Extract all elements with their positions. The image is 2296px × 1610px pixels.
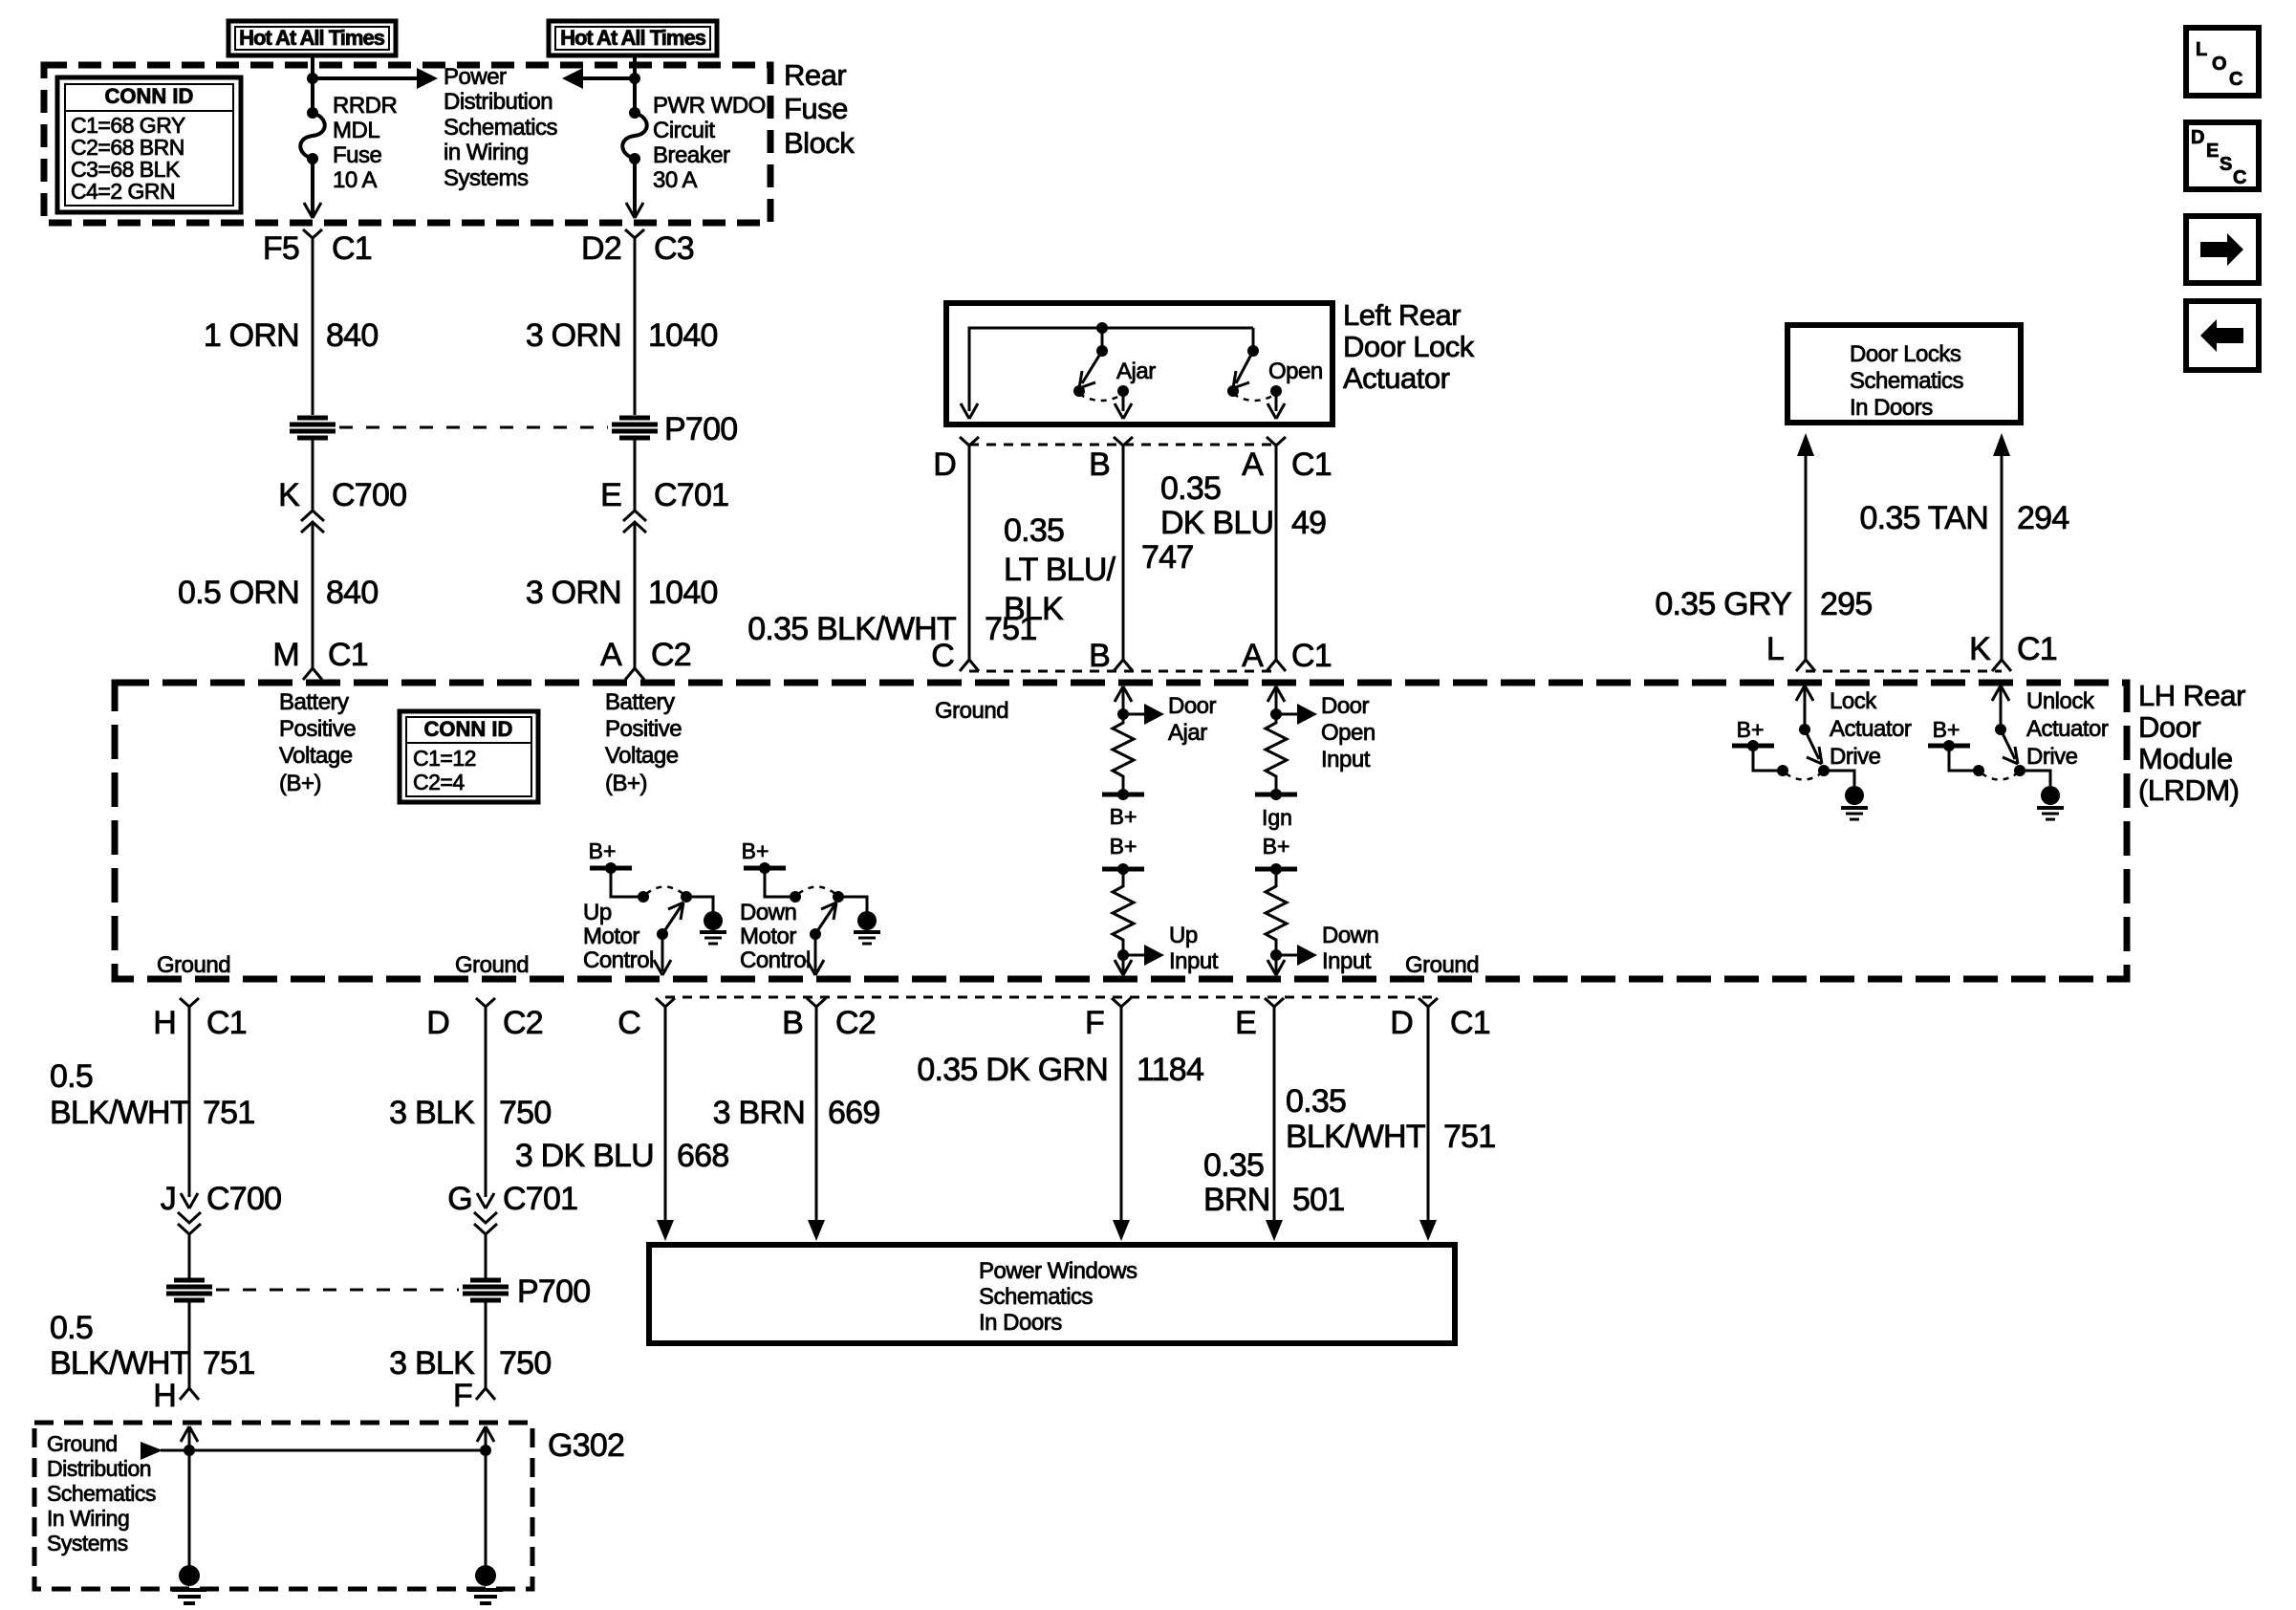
resistor up input: [1113, 869, 1134, 955]
svg-text:3 ORN: 3 ORN: [526, 575, 621, 611]
svg-text:Ground: Ground: [1405, 952, 1479, 978]
nav box LOC: [2186, 28, 2259, 96]
door open branch arrow: [1276, 704, 1317, 725]
lock drive pivot: [1799, 724, 1810, 735]
svg-text:H: H: [153, 1378, 176, 1414]
svg-text:Down: Down: [740, 900, 796, 925]
svg-text:Lock: Lock: [1830, 688, 1877, 714]
svg-text:Motor: Motor: [583, 924, 639, 949]
up input chain: B+ feed: [1102, 834, 1144, 875]
up motor output wire down arrow: [654, 934, 671, 975]
connector pin M C1 (module entry): [272, 637, 368, 680]
svg-text:P700: P700: [517, 1273, 590, 1310]
svg-text:CONN ID: CONN ID: [105, 84, 194, 108]
svg-text:751: 751: [1443, 1119, 1495, 1155]
module pin B: [1089, 638, 1133, 674]
svg-text:BLK/WHT: BLK/WHT: [50, 1095, 189, 1131]
CONN ID table inside module: [400, 711, 538, 802]
node on bus for ajar switch: [1096, 322, 1108, 334]
nav box arrow left: [2186, 301, 2259, 370]
svg-text:0.35 TAN: 0.35 TAN: [1860, 500, 1988, 536]
svg-text:C1: C1: [1291, 446, 1332, 483]
svg-text:294: 294: [2017, 500, 2069, 536]
wire C to power windows 3 DK BLU 668: [657, 1007, 674, 1241]
svg-text:840: 840: [326, 317, 378, 354]
svg-text:Open: Open: [1268, 359, 1323, 384]
node junction top col2: [629, 73, 640, 84]
down motor moving contact: [833, 891, 844, 903]
up motor control feed wire: [611, 868, 640, 897]
svg-text:M: M: [272, 637, 299, 673]
module bottom connector dashed line: [665, 996, 1434, 999]
svg-text:(B+): (B+): [605, 771, 647, 796]
lock drive moving contact: [1818, 765, 1830, 776]
module pin C (ground): [931, 638, 979, 674]
down motor dashed arc: [798, 887, 835, 895]
svg-text:Door Lock: Door Lock: [1343, 330, 1475, 363]
svg-text:D2: D2: [581, 230, 621, 267]
svg-text:C701: C701: [503, 1181, 577, 1217]
svg-text:Open: Open: [1321, 720, 1375, 746]
svg-text:F5: F5: [263, 230, 299, 267]
svg-text:LT BLU/: LT BLU/: [1004, 552, 1116, 588]
svg-text:Ground: Ground: [935, 698, 1008, 724]
wire arrow to power distribution (right): [313, 68, 438, 89]
wire 0.5 ORN 840: [312, 522, 314, 668]
connector pin F (to G302): [453, 1378, 495, 1414]
unlock actuator drive: arrow up at boundary: [1992, 685, 2009, 701]
svg-text:Hot At All Times: Hot At All Times: [239, 26, 385, 50]
svg-text:C2: C2: [835, 1005, 876, 1041]
wire actuator D to module (ground): [968, 446, 971, 660]
wire lock 0.35 GRY 295 up to door locks box: [1797, 433, 1814, 660]
wire below J connector: [188, 1234, 191, 1278]
connector pin H (to G302): [153, 1378, 199, 1414]
svg-text:C: C: [2233, 167, 2246, 188]
svg-text:Input: Input: [1169, 948, 1219, 974]
splice grommet P700 lower col1: [166, 1280, 212, 1300]
resistor door open: [1266, 714, 1287, 794]
Ign rail door open: [1255, 789, 1297, 830]
svg-text:C1=12: C1=12: [413, 746, 476, 771]
module pin F (bottom): [1085, 998, 1131, 1041]
svg-text:B: B: [782, 1005, 803, 1041]
ajar switch contacts and dashed arc: [1073, 385, 1129, 401]
dashed link between lower P700 splices: [216, 1289, 459, 1292]
open switch contacts and dashed arc: [1227, 385, 1282, 401]
svg-text:501: 501: [1292, 1182, 1344, 1218]
svg-text:Rear: Rear: [784, 58, 846, 92]
svg-text:C: C: [2229, 69, 2242, 90]
resistor door ajar: [1113, 714, 1134, 794]
wire D to power windows 0.35 BLK/WHT 751: [1419, 1007, 1437, 1241]
G302 entry arrow col1: [181, 1426, 198, 1442]
svg-text:0.5: 0.5: [50, 1058, 93, 1095]
up motor contact to ground wire: [686, 897, 713, 912]
svg-text:Unlock: Unlock: [2026, 688, 2095, 714]
svg-text:Schematics: Schematics: [444, 115, 558, 141]
node door ajar: [1117, 708, 1129, 720]
svg-text:D: D: [2191, 127, 2204, 148]
lock drive fixed contact: [1777, 765, 1788, 776]
connector pin D2 C3 (fuse block exit): [581, 229, 694, 267]
svg-text:Positive: Positive: [279, 716, 356, 742]
up motor switch arm: [657, 903, 683, 940]
wire col1 below splice: [312, 438, 314, 511]
module pin B and C2 (bottom): [782, 998, 876, 1041]
svg-text:B+: B+: [1933, 717, 1960, 742]
svg-text:Circuit: Circuit: [653, 118, 715, 143]
svg-text:C700: C700: [332, 477, 406, 513]
wire col2 below splice: [634, 438, 637, 511]
down motor contact to ground wire: [838, 897, 867, 912]
svg-text:Schematics: Schematics: [979, 1284, 1094, 1310]
svg-text:DK BLU: DK BLU: [1160, 505, 1273, 541]
actuator pin B: [1089, 437, 1133, 483]
svg-text:C1: C1: [1291, 638, 1332, 674]
wire D ground 3 BLK 750: [485, 1007, 487, 1197]
unlock drive B+ feed: [1928, 717, 1970, 751]
svg-text:PWR WDO: PWR WDO: [653, 93, 766, 119]
module pin H and C1 (bottom): [153, 998, 247, 1041]
connector pin A C2 (module entry): [600, 637, 691, 680]
svg-text:RRDR: RRDR: [333, 93, 397, 119]
circuit breaker PWR WDO 30A: [622, 107, 647, 164]
svg-text:Power Windows: Power Windows: [979, 1258, 1137, 1284]
wire H ground 0.5 BLK/WHT 751: [188, 1007, 191, 1197]
svg-text:Fuse: Fuse: [333, 142, 382, 168]
svg-text:C2: C2: [503, 1005, 543, 1041]
ground (lock drive): [1841, 786, 1868, 819]
svg-text:G302: G302: [548, 1427, 624, 1464]
G302 dashed box: [34, 1423, 532, 1589]
ground (down motor): [854, 911, 880, 944]
svg-text:Ign: Ign: [1262, 805, 1292, 830]
svg-text:(LRDM): (LRDM): [2138, 773, 2240, 807]
svg-text:L: L: [1766, 631, 1784, 667]
svg-text:J: J: [161, 1181, 176, 1217]
door locks schematics box: [1787, 325, 2021, 423]
svg-text:Voltage: Voltage: [279, 743, 353, 769]
module pin D and C1 (bottom right): [1390, 998, 1490, 1041]
wire 3 ORN 1040: [634, 238, 637, 415]
svg-text:A: A: [1242, 638, 1264, 674]
svg-text:F: F: [453, 1378, 472, 1414]
actuator pin D: [933, 437, 979, 483]
down motor output wire down arrow: [807, 934, 824, 975]
wire from hot box 2 down: [633, 55, 637, 113]
svg-text:Positive: Positive: [605, 716, 682, 742]
svg-text:Drive: Drive: [1830, 744, 1881, 770]
ground (unlock drive): [2037, 786, 2064, 819]
splice grommet P700 col2: [612, 418, 658, 438]
wire 3 ORN 1040 lower: [634, 522, 637, 668]
unlock drive fixed contact: [1973, 765, 1984, 776]
power windows schematics box: [649, 1245, 1455, 1343]
svg-text:668: 668: [677, 1138, 728, 1174]
svg-text:In Wiring: In Wiring: [47, 1506, 129, 1531]
svg-text:A: A: [600, 637, 622, 673]
svg-text:669: 669: [828, 1095, 879, 1131]
svg-text:H: H: [153, 1005, 176, 1041]
svg-text:In Doors: In Doors: [1850, 395, 1933, 421]
svg-text:747: 747: [1141, 539, 1193, 576]
unlock drive feed wire: [1949, 746, 1976, 771]
lock actuator drive: arrow up at boundary: [1796, 685, 1813, 701]
svg-text:0.35 DK GRN: 0.35 DK GRN: [917, 1052, 1108, 1088]
wire down to node: [1122, 688, 1125, 714]
ajar switch pivot: [1096, 328, 1108, 357]
down motor fixed contact: [790, 891, 801, 903]
svg-text:B: B: [1089, 638, 1110, 674]
unlock drive contact to ground wire: [2020, 771, 2050, 786]
svg-text:Module: Module: [2138, 742, 2233, 775]
svg-text:Ground: Ground: [455, 952, 529, 978]
lock drive wire: [1804, 687, 1807, 729]
wire 1 ORN 840: [312, 238, 314, 415]
node up input: [1117, 949, 1129, 961]
B+ rail door ajar: [1102, 789, 1144, 829]
svg-text:751: 751: [203, 1095, 254, 1131]
svg-text:B+: B+: [1110, 834, 1137, 859]
down motor control feed wire: [765, 868, 792, 897]
svg-text:750: 750: [499, 1095, 551, 1131]
actuator ground wire arrow: [961, 403, 978, 419]
svg-text:Actuator: Actuator: [2026, 716, 2109, 742]
svg-text:C3: C3: [654, 230, 694, 267]
svg-text:S: S: [2220, 154, 2232, 175]
down motor switch arm: [810, 903, 836, 940]
ground (up motor): [700, 911, 726, 944]
svg-text:30 A: 30 A: [653, 167, 698, 193]
svg-text:B+: B+: [589, 838, 617, 863]
svg-text:C: C: [931, 638, 954, 674]
svg-text:C700: C700: [206, 1181, 281, 1217]
svg-text:(B+): (B+): [279, 771, 321, 796]
G302 feed arrow from ground distribution: [141, 1442, 486, 1460]
svg-text:BLK/WHT: BLK/WHT: [50, 1345, 189, 1382]
ground G302 col1: [172, 1565, 206, 1603]
splice grommet P700 lower col2: [463, 1280, 509, 1300]
svg-text:C1: C1: [206, 1005, 247, 1041]
node door open: [1270, 708, 1282, 720]
module pin K and C1: [1969, 631, 2057, 671]
unlock drive pivot: [1995, 724, 2006, 735]
svg-text:3 BLK: 3 BLK: [389, 1345, 475, 1382]
svg-text:Ajar: Ajar: [1168, 720, 1207, 746]
svg-text:Up: Up: [583, 900, 612, 925]
hot at all times box 1: [228, 21, 396, 55]
actuator internal bus wire: [969, 328, 1253, 411]
svg-text:C1: C1: [2017, 631, 2057, 667]
wire from hot box 1 down into fuse: [311, 55, 314, 113]
wire F to power windows 0.35 DK GRN 1184: [1113, 1007, 1130, 1241]
svg-text:Up: Up: [1169, 923, 1198, 948]
svg-text:49: 49: [1291, 505, 1326, 541]
down input wire down arrow at boundary: [1267, 955, 1285, 975]
ajar switch arm: [1079, 351, 1102, 388]
module entry dashed line below actuator wires: [969, 670, 1276, 673]
svg-text:Battery: Battery: [605, 689, 675, 715]
resistor down input: [1266, 869, 1287, 955]
svg-text:Distribution: Distribution: [444, 89, 552, 115]
wire unlock 0.35 TAN 294 up to door locks box: [1993, 433, 2010, 660]
actuator connector dashed line: [969, 444, 1276, 446]
svg-text:Door: Door: [1321, 693, 1370, 719]
svg-text:Systems: Systems: [47, 1531, 128, 1556]
svg-text:C1: C1: [332, 230, 372, 267]
svg-text:3 BLK: 3 BLK: [389, 1095, 475, 1131]
wire actuator B to module: [1122, 446, 1125, 660]
svg-text:F: F: [1085, 1005, 1104, 1041]
svg-text:Drive: Drive: [2026, 744, 2078, 770]
module pin A and C1: [1242, 638, 1332, 674]
in-line connector G C701: [447, 1181, 577, 1234]
CONN ID table top-left: [57, 77, 241, 212]
svg-text:Voltage: Voltage: [605, 743, 679, 769]
svg-text:E: E: [600, 477, 621, 513]
svg-text:A: A: [1242, 446, 1264, 483]
svg-text:295: 295: [1820, 586, 1872, 622]
module pin D and C2 (bottom): [426, 998, 543, 1041]
module pin L: [1766, 631, 1815, 671]
actuator pin A and C1: [1242, 437, 1332, 483]
svg-text:3 BRN: 3 BRN: [713, 1095, 805, 1131]
down motor control B+ feed: [742, 838, 786, 874]
svg-text:C1: C1: [1450, 1005, 1490, 1041]
svg-text:C: C: [617, 1005, 640, 1041]
node G302 col2: [480, 1445, 491, 1456]
svg-text:Hot At All Times: Hot At All Times: [560, 26, 706, 50]
svg-text:Control: Control: [740, 947, 811, 973]
lock drive switch arm: [1805, 729, 1822, 764]
open wire down with arrow: [1267, 391, 1285, 419]
svg-text:1040: 1040: [648, 575, 718, 611]
svg-text:Actuator: Actuator: [1343, 361, 1450, 395]
svg-text:Down: Down: [1322, 923, 1378, 948]
svg-text:Door Locks: Door Locks: [1850, 341, 1961, 367]
L K connector dashed line: [1806, 670, 2002, 673]
open switch arm: [1233, 351, 1253, 388]
svg-text:In Doors: In Doors: [979, 1310, 1062, 1336]
svg-text:in Wiring: in Wiring: [444, 140, 529, 165]
G302 wire col1: [188, 1428, 191, 1568]
svg-text:0.35 GRY: 0.35 GRY: [1655, 586, 1791, 622]
svg-text:840: 840: [326, 575, 378, 611]
wire breaker to boundary with arrow: [626, 159, 643, 218]
svg-text:D: D: [933, 446, 956, 483]
wire 0.5 BLK/WHT 751 lower: [188, 1300, 191, 1388]
wire E to power windows 0.35 BRN 501: [1266, 1007, 1283, 1241]
up input wire down arrow at boundary: [1115, 955, 1132, 975]
wire B to power windows 3 BRN 669: [808, 1007, 825, 1241]
unlock drive moving contact: [2014, 765, 2025, 776]
down input chain: B+ feed: [1255, 834, 1297, 875]
svg-text:Ground: Ground: [157, 952, 230, 978]
svg-text:C2: C2: [651, 637, 691, 673]
up motor moving contact: [681, 891, 692, 903]
svg-text:MDL: MDL: [333, 118, 379, 143]
svg-text:B+: B+: [1263, 834, 1290, 859]
svg-text:B+: B+: [1110, 804, 1137, 829]
svg-text:Systems: Systems: [444, 165, 529, 191]
up input branch arrow: [1123, 945, 1164, 966]
wire actuator A to module: [1275, 446, 1278, 660]
lock drive contact to ground wire: [1824, 771, 1854, 786]
up motor fixed contact: [638, 891, 649, 903]
door ajar branch arrow: [1123, 704, 1164, 725]
svg-text:C1: C1: [328, 637, 368, 673]
door open input chain: arrow up at boundary: [1267, 686, 1285, 702]
fuse RRDR MDL 10A: [300, 107, 325, 164]
svg-text:Input: Input: [1322, 948, 1372, 974]
svg-text:Ground: Ground: [47, 1431, 118, 1456]
svg-text:K: K: [1969, 631, 1991, 667]
svg-text:LH Rear: LH Rear: [2138, 679, 2245, 712]
svg-text:3 ORN: 3 ORN: [526, 317, 621, 354]
splice grommet P700 col1: [290, 418, 336, 438]
unlock drive wire: [2000, 687, 2003, 729]
unlock drive switch arm: [2001, 729, 2018, 764]
svg-text:C701: C701: [654, 477, 728, 513]
ajar wire down with arrow: [1115, 391, 1132, 419]
rear fuse block dashed box: [44, 65, 770, 223]
svg-text:Left Rear: Left Rear: [1343, 298, 1461, 332]
lock drive B+ feed: [1732, 717, 1774, 751]
svg-text:Actuator: Actuator: [1830, 716, 1912, 742]
svg-text:Control: Control: [583, 947, 654, 973]
svg-text:Power: Power: [444, 64, 507, 90]
svg-text:B+: B+: [742, 838, 769, 863]
svg-text:D: D: [1390, 1005, 1413, 1041]
node down input: [1270, 949, 1282, 961]
svg-text:Door: Door: [2138, 710, 2200, 744]
ground G302 col2: [468, 1565, 503, 1603]
in-line connector J C700: [161, 1181, 282, 1234]
svg-text:Motor: Motor: [740, 924, 796, 949]
svg-text:0.5: 0.5: [50, 1310, 93, 1346]
module pin E (bottom): [1235, 998, 1284, 1041]
lock drive feed wire: [1753, 746, 1780, 771]
open switch pivot: [1247, 328, 1259, 357]
svg-text:BLK: BLK: [1004, 591, 1064, 627]
svg-text:O: O: [2212, 54, 2227, 75]
svg-text:Block: Block: [784, 126, 855, 160]
svg-text:P700: P700: [664, 411, 737, 447]
left rear door lock actuator box: [946, 303, 1332, 424]
svg-text:10 A: 10 A: [333, 167, 378, 193]
connector pin F5 C1 (fuse block exit): [263, 229, 372, 267]
svg-text:1 ORN: 1 ORN: [204, 317, 299, 354]
module pin C (bottom): [617, 998, 675, 1041]
svg-text:Ajar: Ajar: [1116, 359, 1156, 384]
svg-text:B+: B+: [1737, 717, 1765, 742]
dashed link between P700 splices: [339, 426, 608, 429]
svg-text:G: G: [447, 1181, 472, 1217]
G302 entry arrow col2: [477, 1426, 494, 1442]
svg-text:0.35: 0.35: [1286, 1083, 1346, 1120]
svg-text:0.35: 0.35: [1004, 512, 1064, 549]
svg-text:750: 750: [499, 1345, 551, 1382]
svg-text:CONN ID: CONN ID: [424, 717, 513, 741]
svg-text:B: B: [1089, 446, 1110, 483]
down input branch arrow: [1276, 945, 1317, 966]
in-line connector E C701: [600, 477, 728, 533]
hot at all times box 2: [549, 21, 717, 55]
svg-text:Fuse: Fuse: [784, 92, 848, 125]
svg-text:D: D: [426, 1005, 449, 1041]
svg-text:K: K: [278, 477, 300, 513]
